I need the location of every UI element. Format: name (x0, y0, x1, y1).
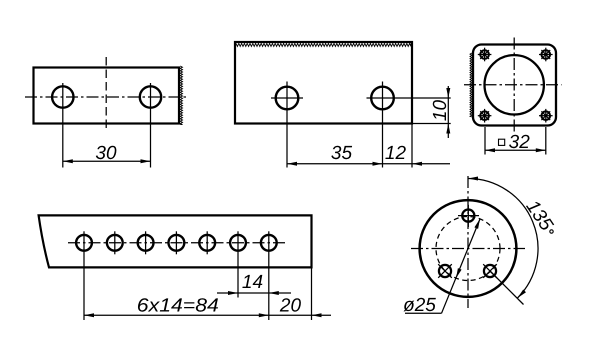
svg-text:10: 10 (430, 100, 451, 122)
svg-text:32: 32 (509, 132, 531, 153)
svg-text:6x14=84: 6x14=84 (137, 295, 219, 316)
svg-text:ø25: ø25 (403, 295, 436, 316)
svg-text:14: 14 (242, 272, 263, 293)
svg-text:20: 20 (279, 295, 302, 316)
svg-text:30: 30 (95, 143, 117, 164)
svg-text:35: 35 (331, 143, 353, 164)
svg-text:12: 12 (385, 143, 407, 164)
